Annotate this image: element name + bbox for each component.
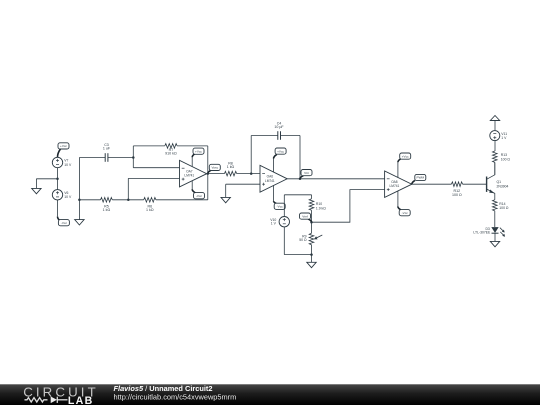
svg-text:LM741: LM741	[184, 174, 194, 178]
svg-text:1.9 kΩ: 1.9 kΩ	[316, 206, 326, 210]
svg-text:LM741: LM741	[390, 184, 400, 188]
svg-text:Vref: Vref	[302, 214, 308, 218]
svg-text:+Vcc: +Vcc	[277, 149, 284, 153]
svg-text:1 V: 1 V	[271, 221, 277, 225]
svg-text:R13: R13	[501, 153, 507, 157]
svg-text:LM741: LM741	[265, 179, 275, 183]
svg-text:-Vcc: -Vcc	[277, 205, 284, 209]
svg-text:Vosc: Vosc	[211, 166, 218, 170]
svg-text:100 Ω: 100 Ω	[499, 206, 509, 210]
svg-text:-Vcc: -Vcc	[61, 221, 68, 225]
svg-text:1 V: 1 V	[501, 136, 507, 140]
svg-text:910 kΩ: 910 kΩ	[165, 152, 177, 156]
svg-text:100 Ω: 100 Ω	[501, 157, 511, 161]
svg-text:-Vcc: -Vcc	[196, 194, 203, 198]
svg-text:http://circuitlab.com/c54xvwew: http://circuitlab.com/c54xvwewp5mrm	[114, 393, 237, 402]
svg-text:1 kΩ: 1 kΩ	[146, 208, 154, 212]
svg-text:2N3904: 2N3904	[497, 184, 509, 188]
svg-text:1 kΩ: 1 kΩ	[227, 165, 235, 169]
svg-text:10 V: 10 V	[64, 163, 72, 167]
svg-text:-Vcc: -Vcc	[402, 211, 409, 215]
svg-text:1 uF: 1 uF	[103, 147, 111, 151]
svg-text:LAB: LAB	[68, 395, 94, 405]
svg-text:1 kΩ: 1 kΩ	[103, 208, 111, 212]
svg-text:Vtri: Vtri	[304, 171, 309, 175]
svg-text:100 Ω: 100 Ω	[452, 193, 462, 197]
svg-text:10 µF: 10 µF	[274, 125, 284, 129]
svg-text:10 V: 10 V	[64, 195, 72, 199]
svg-text:LTL-307EE: LTL-307EE	[473, 230, 491, 234]
svg-text:+Vcc: +Vcc	[402, 154, 409, 158]
svg-text:+Vcc: +Vcc	[195, 149, 202, 153]
svg-text:50 Ω: 50 Ω	[299, 238, 307, 242]
svg-text:+Vcc: +Vcc	[60, 144, 67, 148]
svg-text:PWM: PWM	[417, 176, 425, 180]
